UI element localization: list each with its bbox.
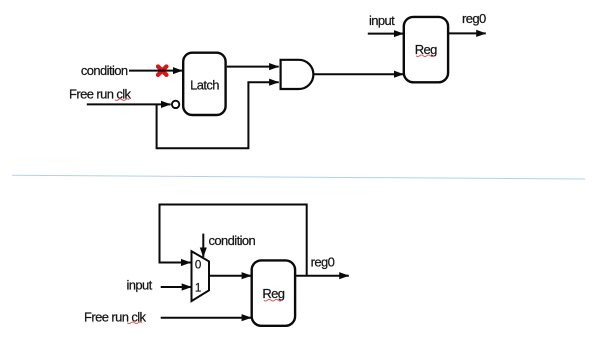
wire latch Q -> AND top input [227,66,279,68]
svg-text:Latch: Latch [190,78,219,93]
wire mux output -> reg [209,275,251,277]
AND gate G1 [281,60,314,89]
svg-text:input: input [369,13,395,28]
svg-text:condition: condition [209,233,256,248]
svg-text:Reg: Reg [415,42,437,57]
squiggle under clk (bottom) [127,322,141,324]
wire feedback reg0 -> mux input 0 [160,205,307,276]
wire condition -> mux select [202,234,204,257]
wire condition -> latch [129,70,182,72]
mux M1 [192,251,210,301]
svg-text:condition: condition [81,63,128,78]
wire AND output -> reg [314,73,404,75]
wire Free run clk -> reg clock [161,317,252,319]
wire reg0 output (top) [448,32,486,34]
wire clk feedback tap (down, right, up to AND lower input) [157,82,279,148]
squiggle under clk (top) [115,99,129,101]
squiggle under Reg (top) [416,55,434,57]
red X mark on condition wire [158,67,166,75]
wire Free run clk -> latch clock [87,103,171,105]
svg-text:input: input [127,278,153,293]
svg-text:Reg: Reg [262,286,284,301]
latch U1 [183,53,225,115]
svg-text:0: 0 [195,259,201,272]
svg-text:reg0: reg0 [311,255,335,270]
svg-text:Free run clk: Free run clk [84,310,147,325]
clock bubble on latch [172,101,179,108]
wire input -> mux input 1 [161,286,192,288]
wire reg0 output (bottom) [295,275,349,277]
svg-text:reg0: reg0 [462,11,486,26]
wire input -> reg [368,33,404,35]
svg-text:Free run clk: Free run clk [69,86,132,101]
register Reg U2 [404,17,448,82]
separator line [12,175,585,179]
squiggle under Reg (bottom) [264,299,282,301]
svg-text:1: 1 [195,281,201,294]
register Reg U3 [252,260,295,325]
